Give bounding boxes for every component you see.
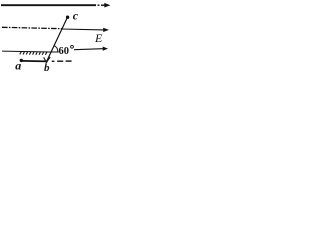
- wire: top line dashed right portion: [98, 4, 100, 6]
- svg-text:E: E: [94, 31, 103, 45]
- angle arc at vertex: [54, 45, 58, 52]
- background: [0, 0, 111, 82]
- hatch ticks: [20, 52, 47, 55]
- node a dot: [20, 59, 23, 62]
- wire: bottom solid line a-b: [21, 60, 47, 63]
- node c dot: [66, 16, 69, 19]
- svg-text:b: b: [44, 62, 50, 74]
- wire: right ray after label: [74, 49, 103, 50]
- node: top line arrowhead: [104, 3, 110, 8]
- wire: top horizontal line (thick): [1, 4, 96, 6]
- degree mark: [71, 45, 74, 48]
- node: right ray arrowhead: [103, 47, 108, 51]
- wire: middle solid line with arrow (right): [62, 28, 104, 31]
- wire: diagonal ray b to c: [47, 17, 68, 61]
- wire: short segment right of vertex: [51, 51, 59, 53]
- node: middle line arrowhead: [103, 28, 109, 32]
- node: diagonal arrowhead at b end: [44, 57, 51, 63]
- svg-text:60: 60: [59, 46, 70, 57]
- svg-text:c: c: [73, 9, 79, 23]
- svg-text:a: a: [15, 59, 21, 73]
- wire: middle dashed line (left): [2, 27, 62, 28]
- wire: bottom dash-dot right of b: [52, 60, 55, 62]
- wire: hatched horizontal line: [2, 50, 51, 53]
